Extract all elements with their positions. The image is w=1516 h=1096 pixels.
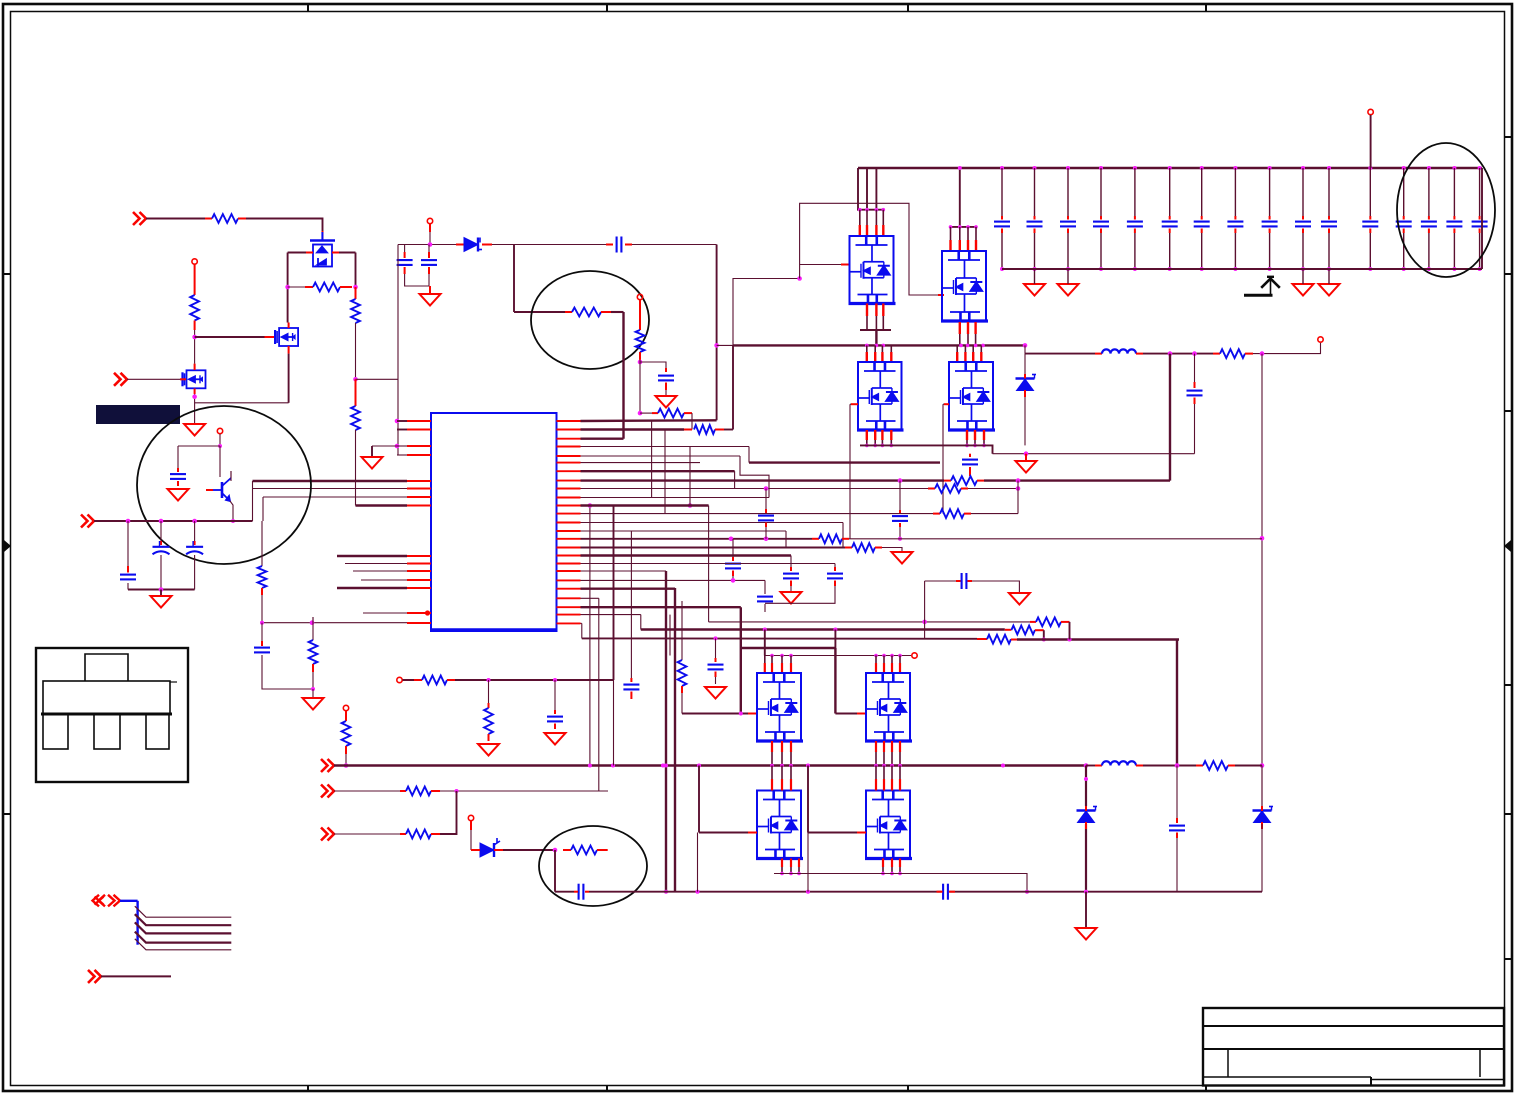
junction: [1368, 166, 1372, 170]
wire (cap leg): [1169, 233, 1171, 269]
wire (cross): [664, 430, 666, 514]
junction: [875, 344, 879, 348]
wire: [339, 252, 356, 254]
junction: [858, 208, 862, 212]
junction: [1025, 890, 1029, 894]
wire gap for capacitor C20: [942, 889, 950, 894]
wire: [146, 218, 205, 220]
junction: [982, 444, 986, 448]
wire (cap leg): [1201, 233, 1203, 269]
junction: [159, 587, 164, 592]
wire: [640, 615, 642, 630]
wire: [194, 521, 196, 541]
wire (long row): [709, 621, 1030, 623]
resistor R5: [190, 295, 199, 321]
wire: [503, 849, 555, 851]
junction: [1033, 267, 1037, 271]
port chevron: [321, 759, 334, 772]
resistor R25: [1203, 761, 1228, 770]
capacitor C23: [892, 516, 908, 521]
wire: [764, 580, 766, 594]
wire (cap leg): [1100, 168, 1102, 216]
wire (pin row): [581, 488, 929, 490]
wire: [262, 655, 313, 689]
wire (long feedback): [1261, 354, 1263, 806]
ground: [151, 596, 172, 608]
wire: [790, 586, 792, 592]
capacitor C22: [623, 685, 639, 690]
capacitor (bank): [1227, 222, 1243, 227]
junction: [890, 654, 894, 658]
junction: [731, 578, 736, 583]
wire (thick drop): [665, 571, 667, 892]
wire (cap leg): [1067, 168, 1069, 216]
wire: [984, 479, 1170, 481]
wire (pin row): [581, 428, 685, 430]
wire (gate D): [808, 832, 857, 834]
IC U1 (controller): [430, 413, 558, 631]
junction: [285, 285, 290, 290]
junction: [1478, 166, 1482, 170]
wire (cross): [669, 615, 671, 656]
junction: [1023, 343, 1028, 348]
junction: [1000, 166, 1004, 170]
capacitor (bank): [1421, 222, 1437, 227]
junction: [588, 764, 592, 768]
junction: [395, 419, 400, 424]
junction: [1000, 267, 1004, 271]
junction: [661, 764, 665, 768]
capacitor C7: [170, 474, 186, 479]
wire: [1194, 354, 1196, 382]
wire (Q6 gate): [849, 404, 851, 539]
bus fan wire: [135, 922, 232, 933]
highlight ellipse (bias network): [137, 406, 311, 564]
junction: [882, 654, 886, 658]
junction: [1066, 267, 1070, 271]
wire (return rail): [1002, 268, 1482, 270]
wire: [875, 168, 877, 210]
wire (Q1 drain to Q2): [287, 253, 289, 323]
wire (pin row): [581, 563, 836, 565]
junction: [881, 872, 885, 876]
junction: [1368, 267, 1372, 271]
junction: [789, 872, 793, 876]
ground: [478, 744, 499, 756]
wire (bus): [337, 587, 407, 589]
junction: [780, 872, 784, 876]
wire (gate C): [699, 832, 748, 834]
wire: [429, 232, 431, 245]
zener diode Z2: [1077, 807, 1098, 823]
wire (cap leg): [1428, 233, 1430, 269]
wire: [860, 329, 891, 331]
wire: [403, 679, 415, 681]
wire: [261, 623, 263, 645]
resistor R4: [351, 406, 360, 430]
junction: [882, 764, 886, 768]
wire: [785, 531, 787, 548]
junction: [1084, 763, 1089, 768]
junction: [922, 620, 927, 625]
wire (pin row): [581, 606, 741, 608]
resistor R21: [819, 534, 842, 543]
MOSFET module Q7: [948, 362, 995, 430]
wire (cross): [689, 447, 691, 506]
capacitor C20 (series): [943, 884, 948, 900]
wire (phase bus): [733, 344, 1025, 346]
ground: [1319, 284, 1340, 296]
junction: [898, 478, 903, 483]
wire: [765, 527, 767, 539]
junction: [218, 444, 222, 448]
junction: [1452, 166, 1456, 170]
junction: [126, 519, 131, 524]
wire (cap leg): [1453, 233, 1455, 269]
capacitor C3 (series): [617, 237, 622, 253]
resistor R8: [658, 409, 684, 418]
wire: [428, 274, 430, 286]
wire (cap leg): [1328, 168, 1330, 216]
wire: [101, 975, 171, 977]
capacitor (bank): [1093, 222, 1109, 227]
wire: [807, 833, 809, 892]
wire: [554, 680, 556, 710]
U1 right pins: [557, 421, 581, 623]
ground: [1024, 284, 1045, 296]
wire: [262, 497, 264, 521]
junction: [874, 764, 878, 768]
junction: [1268, 267, 1272, 271]
capacitor C21: [1169, 826, 1185, 831]
capacitor (bank): [1027, 222, 1043, 227]
terminal (open): [637, 294, 642, 299]
transistor Q3 (N-MOSFET): [183, 370, 206, 388]
junction: [890, 872, 894, 876]
capacitor (bank): [1295, 222, 1311, 227]
wire (bus): [361, 579, 407, 581]
wire: [790, 556, 792, 568]
wire: [866, 168, 868, 210]
transistor Q2 (N-MOSFET): [275, 328, 298, 346]
wire (row thick): [1017, 638, 1179, 640]
MOSFET module Q5: [941, 251, 988, 321]
wire: [849, 538, 1262, 540]
resistor R14: [406, 830, 431, 839]
wire (pin row): [581, 622, 582, 624]
terminal (open): [217, 428, 222, 433]
wire: [1261, 766, 1263, 807]
title block: [1203, 1008, 1504, 1086]
junction: [739, 712, 743, 716]
highlight ellipse (snubber): [539, 826, 647, 906]
junction: [1084, 890, 1088, 894]
wire: [262, 622, 407, 624]
wire: [1176, 838, 1178, 892]
wire: [1086, 765, 1095, 767]
junction: [770, 764, 774, 768]
wire (to R6): [513, 245, 515, 313]
wire: [924, 581, 926, 622]
junction: [1327, 166, 1331, 170]
resistor R15: [422, 676, 447, 685]
wire (cap leg): [1034, 168, 1036, 216]
ground: [705, 687, 726, 699]
wire (Q7 gate): [942, 404, 944, 513]
capacitor C2: [421, 260, 437, 265]
transistor Q1 (P-MOSFET): [310, 232, 335, 267]
wire: [972, 581, 1019, 593]
wire (drop): [740, 607, 742, 713]
ground: [1009, 593, 1030, 605]
wire (pin row): [581, 614, 641, 616]
wire: [968, 488, 1018, 490]
resistor R12: [342, 721, 351, 746]
wire: [640, 362, 666, 368]
capacitor (bank): [1194, 222, 1210, 227]
junction: [764, 486, 769, 491]
wire: [732, 576, 734, 580]
wire (Q8 collector): [219, 446, 221, 477]
junction: [729, 537, 734, 542]
bus fan wire: [135, 939, 232, 950]
inductor L2: [1102, 761, 1136, 765]
junction: [1327, 267, 1331, 271]
wire (left feed): [397, 245, 399, 456]
wire: [405, 274, 429, 286]
MOSFET module Q10: [865, 673, 912, 741]
resistor R24: [571, 846, 597, 855]
wire: [371, 446, 373, 457]
wire (row): [582, 637, 977, 639]
terminal (open): [343, 705, 348, 710]
wire: [611, 311, 624, 313]
junction: [973, 444, 977, 448]
junction: [898, 872, 902, 876]
wire: [230, 471, 232, 478]
capacitor (bank): [1472, 222, 1488, 227]
junction: [192, 519, 197, 524]
junction: [958, 166, 962, 170]
junction: [1042, 638, 1046, 642]
wire: [1253, 343, 1321, 354]
capacitor (bank): [1446, 222, 1462, 227]
wire (cap leg): [1403, 168, 1405, 216]
wire: [514, 311, 565, 313]
wire: [127, 583, 129, 590]
junction: [806, 890, 810, 894]
wire (gate feed upper): [800, 203, 938, 295]
frame mid-edge arrow (left): [4, 540, 11, 552]
junction: [1099, 166, 1103, 170]
wire (cap leg): [1269, 168, 1271, 216]
resistor R9: [1220, 349, 1245, 358]
capacitor (bank): [1060, 222, 1076, 227]
transistor Q8 (NPN): [213, 478, 231, 501]
resistor R27: [987, 635, 1011, 644]
wire: [312, 689, 314, 698]
wire (bus row): [94, 520, 253, 522]
highlight ellipse (R6 area): [531, 271, 649, 369]
wire (Q3 drain): [194, 330, 196, 364]
wire: [665, 390, 667, 396]
junction: [455, 789, 459, 793]
wire: [943, 403, 944, 405]
wire (node row): [356, 378, 399, 380]
ground: [184, 424, 205, 436]
wire (pin row): [581, 513, 934, 515]
wire: [261, 595, 263, 623]
wire: [219, 434, 221, 446]
ground: [1058, 284, 1079, 296]
capacitor C13: [758, 516, 774, 521]
wire (drop): [1176, 640, 1178, 766]
junction: [797, 872, 801, 876]
wire: [1370, 115, 1372, 168]
wire (bottom rail): [555, 891, 574, 893]
wire (pin row): [581, 504, 709, 506]
junction: [898, 764, 902, 768]
junction (red): [425, 610, 430, 615]
resistor R17: [694, 425, 715, 434]
capacitor (bank): [994, 222, 1010, 227]
wire (bus): [253, 480, 408, 482]
capacitor C12: [547, 717, 563, 722]
wire (drop): [732, 345, 734, 429]
capacitor C5: [962, 460, 978, 465]
junction: [898, 537, 902, 541]
wire (cap leg): [1269, 233, 1271, 269]
junction: [664, 890, 668, 894]
wire (cross): [651, 420, 653, 497]
wire: [850, 403, 851, 405]
wire (gate B): [835, 713, 857, 715]
junction: [865, 208, 869, 212]
junction: [1016, 478, 1021, 483]
junction: [260, 621, 264, 625]
junction: [553, 848, 558, 853]
ground: [362, 457, 383, 469]
wire: [178, 445, 220, 447]
inductor L1: [1102, 349, 1136, 353]
wire: [1194, 404, 1196, 454]
terminal (open): [468, 815, 473, 820]
wire: [732, 539, 734, 557]
wire (pin row): [581, 419, 717, 422]
bus fan wire: [135, 914, 232, 925]
wire: [488, 680, 490, 703]
junction: [1452, 267, 1456, 271]
junction: [981, 344, 985, 348]
MOSFET module Q9: [756, 673, 803, 741]
wire (pin row): [581, 470, 735, 472]
wire: [724, 429, 733, 431]
wire (aux rail): [398, 244, 456, 246]
junction: [159, 519, 164, 524]
wire (to Q2 gate): [195, 336, 265, 338]
junction: [353, 285, 358, 290]
capacitor C8: [120, 575, 136, 580]
port chevron pair (bus entry): [93, 895, 121, 907]
wire (row 453): [993, 453, 1195, 455]
wire (Q2 source): [288, 354, 290, 403]
wire (gate feed): [733, 279, 800, 346]
wire (source bus): [860, 445, 993, 453]
wire: [160, 555, 162, 590]
wire: [1235, 765, 1262, 767]
junction: [310, 620, 315, 625]
port chevron: [321, 785, 334, 798]
wire: [334, 833, 400, 835]
wire: [397, 454, 407, 456]
wire: [288, 252, 306, 254]
zener diode Z3: [1253, 807, 1274, 823]
wire (drop): [613, 680, 615, 766]
wire: [160, 590, 162, 597]
ground: [892, 552, 913, 564]
wire: [312, 617, 314, 640]
wire: [397, 420, 407, 422]
wire (long drop): [716, 245, 718, 421]
junction: [664, 764, 668, 768]
wire (cap leg): [1001, 233, 1003, 269]
wire (Q8 emitter): [230, 501, 233, 521]
junction: [1192, 351, 1197, 356]
junction: [882, 344, 886, 348]
port chevron (input): [133, 212, 146, 225]
junction: [833, 628, 837, 632]
wire (bus): [345, 563, 407, 565]
wire (drop): [834, 648, 836, 714]
capacitor C6: [1187, 391, 1203, 396]
wire: [404, 245, 406, 253]
wire: [764, 604, 766, 612]
wire (pin row): [581, 530, 787, 532]
wire (Q5 drain bus): [950, 226, 977, 228]
junction: [764, 537, 769, 542]
capacitor (bank): [1321, 222, 1337, 227]
wire (Q3 source): [194, 394, 196, 424]
wire (row 648): [741, 647, 836, 649]
junction: [1260, 763, 1265, 768]
wire: [924, 622, 926, 639]
connector J1 (footprint outline): [36, 648, 188, 782]
capacitor C1: [397, 260, 413, 265]
wire: [681, 693, 683, 714]
junction: [714, 343, 719, 348]
junction: [1301, 166, 1305, 170]
wire: [397, 445, 407, 447]
wire (emitter chain): [261, 521, 263, 566]
wire: [842, 523, 844, 549]
wire: [1043, 630, 1045, 639]
wire: [899, 481, 901, 510]
capacitor C9 (polarized): [153, 541, 170, 554]
wire (thick drop): [674, 588, 676, 892]
U1 left pins: [407, 421, 431, 623]
capacitor C18: [708, 665, 724, 670]
junction: [865, 444, 869, 448]
junction: [1068, 638, 1072, 642]
wire: [625, 244, 717, 246]
wire (drop): [708, 506, 710, 622]
junction: [770, 654, 774, 658]
wire: [194, 555, 196, 590]
wire: [640, 412, 652, 414]
junction: [1099, 267, 1103, 271]
wire: [177, 446, 179, 468]
ground: [781, 592, 802, 604]
